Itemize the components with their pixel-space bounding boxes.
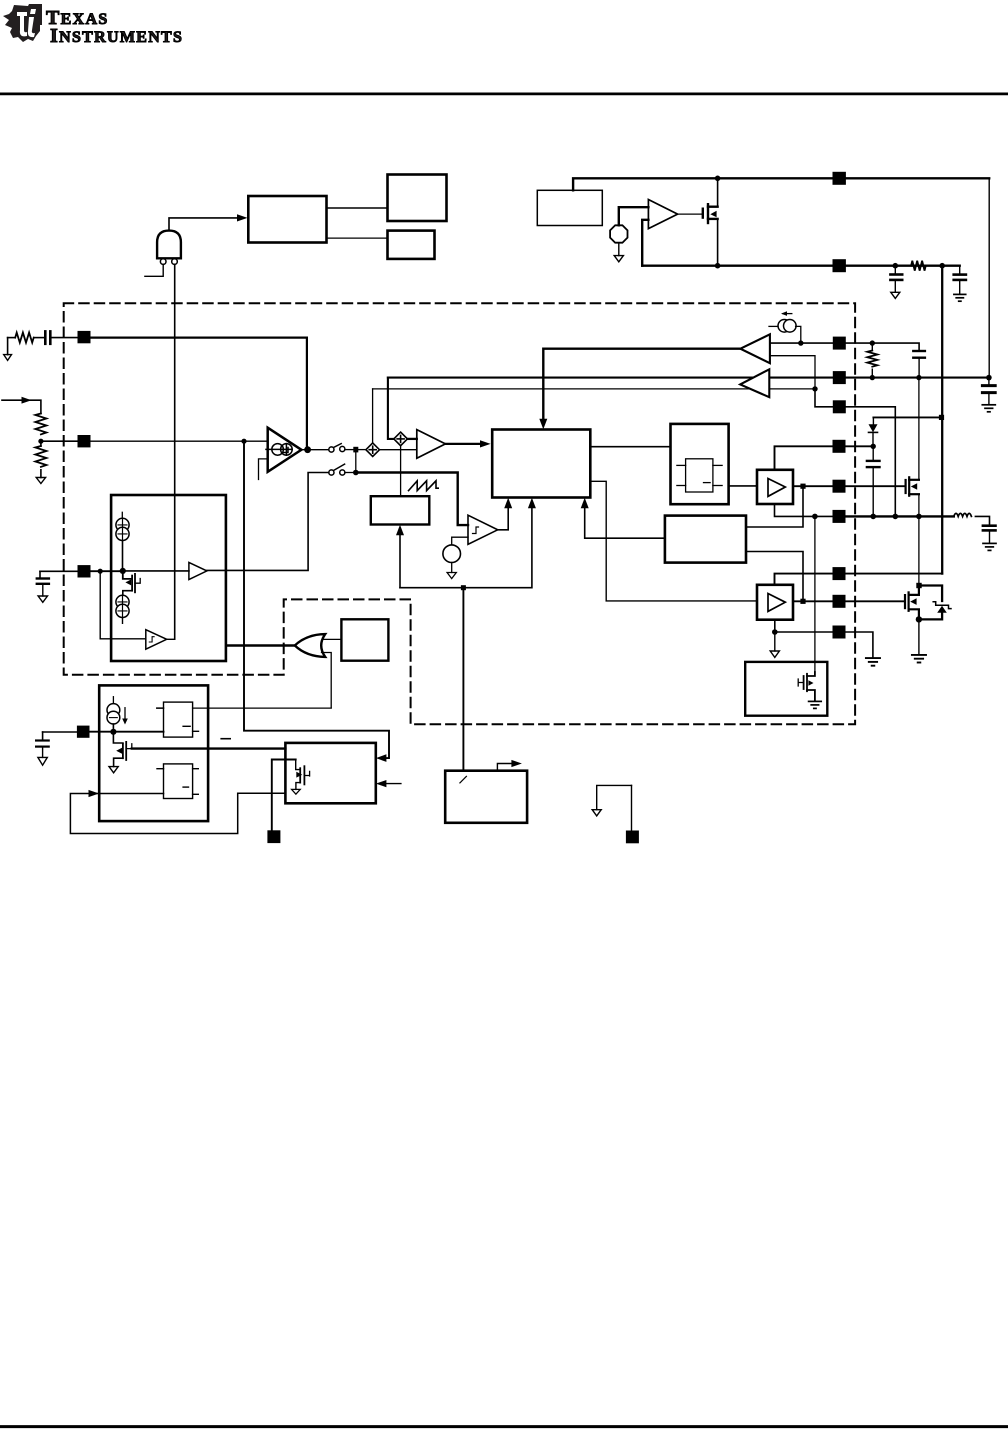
block driver 2 (low side) (757, 585, 793, 620)
wire C9 stem (989, 530, 991, 542)
junction S2 node (353, 470, 359, 476)
current source I4 (SS sink) (116, 595, 129, 617)
junction square S1/S2 node (353, 447, 358, 453)
junction Q1 drain (715, 176, 721, 182)
slash mark inside (460, 776, 467, 783)
pin bottom SYNC (267, 830, 280, 843)
wire C4 stems (894, 266, 896, 293)
wire AND output to reference block (169, 214, 248, 230)
wire AND left input stub (145, 264, 163, 276)
wire SUM2 to ramp generator (400, 446, 402, 497)
wire restart feedback loop (70, 790, 285, 834)
block Reference (box A) (248, 196, 326, 243)
block SW pulldown (745, 662, 827, 716)
current source I1 (octagon) (610, 225, 627, 242)
sawtooth waveform symbol (409, 481, 439, 491)
capacitor C5 (BP out) (954, 275, 966, 280)
pin FB (left, y=441.2) (78, 435, 91, 447)
wire C6 stem (918, 358, 920, 378)
wire U8 output to AND gate (167, 638, 175, 640)
wire driver block arrow input 2 (376, 780, 401, 787)
junction square driver1 out (800, 484, 805, 489)
pin bottom AGND (626, 831, 639, 844)
wire GD2 to Q7 gate (846, 600, 905, 602)
wire net SWSNS (y=388.9 bus) (373, 388, 815, 390)
ground earth (C5) (954, 294, 966, 301)
stray minus mark (221, 738, 230, 740)
wire U5 reference stub (259, 459, 268, 480)
wire PWM logic to driver 2 path (590, 481, 757, 601)
junction driver2 return (772, 629, 778, 635)
resistor R4 (BP rail) (911, 261, 926, 271)
wire SS pin external (40, 571, 78, 578)
wire FB branch to restart block (244, 441, 389, 762)
wire Q6 source to SW (918, 494, 920, 516)
resistor R2 (divider top) (35, 414, 46, 435)
pin SS (left, y=571.3) (78, 565, 91, 577)
transistor Q1 (BP pass FET) (703, 204, 718, 223)
wire FB input arrow (2, 397, 41, 414)
junction square ramp/frequency node (461, 585, 466, 590)
wire S2 node to oscillator comparator (356, 473, 468, 526)
capacitor C4 (BP bypass) (890, 275, 902, 280)
wire driver2 return (775, 620, 833, 632)
arrow I2 direction (781, 311, 792, 316)
wire C7 stems (988, 378, 990, 404)
pin BP2 (right, y=573.6) (833, 567, 846, 580)
wire I1 top to op-amp input (619, 207, 649, 225)
block UVLO (right of OR) (341, 619, 388, 660)
wire U7 output to PWM logic (498, 498, 513, 530)
wire COMP node to switch S1 (301, 449, 328, 451)
transistor Q7 (low-side FET) (905, 588, 919, 619)
wire ISNS to summer 2 (388, 378, 394, 439)
junction SW Q6 source (916, 514, 922, 520)
wire ramp line to PWM logic (400, 498, 536, 588)
ground arrow (DIS cap) (38, 757, 47, 765)
comparator box CMP1 (157, 702, 199, 737)
wire net U3 input (y=343.1) (770, 343, 919, 350)
resistor R3 (divider bottom) (35, 446, 46, 467)
wire SW down to Q7 drain (918, 516, 920, 582)
wire S2 to junction (345, 472, 353, 474)
wire Q7 source to ground (918, 619, 920, 654)
transistor Q8 arrow (808, 680, 813, 686)
op-amp U2 (BP regulator) (648, 200, 677, 229)
AND gate U1 (157, 231, 181, 259)
ground arrow (SS cap) (38, 596, 47, 602)
wire I3 to SS node (122, 541, 124, 571)
block box C (388, 231, 435, 259)
junction BOOT cap top (871, 444, 876, 449)
ground arrow (Q3) (109, 767, 118, 773)
wire SS node inside (123, 570, 189, 572)
junction Q1 source (715, 263, 721, 269)
capacitor C6 (filter) (913, 351, 925, 358)
wire BP rail (y=265.7) (642, 265, 960, 267)
wire I2 left lead (769, 325, 778, 327)
wire Q6 drain to ISNS (918, 378, 920, 480)
wire DIS cap to ground (42, 747, 44, 758)
current source I2 (OC threshold) (778, 320, 796, 333)
buffer triangle SS (189, 562, 207, 579)
block frequency set (445, 771, 527, 823)
switch S2 contacts (329, 464, 345, 475)
wire OR input 2 (322, 653, 332, 708)
gm symbol inside U5 (266, 444, 292, 456)
TI wordmark text (46, 7, 183, 47)
wire L1 to output cap (975, 516, 989, 525)
capacitor C9 (output) (983, 526, 996, 531)
transistor Q6 arrow (911, 483, 917, 490)
wire box A to box B (327, 207, 388, 209)
junction BP to column (939, 263, 945, 269)
wire GD1 to Q6 gate (846, 485, 905, 487)
junction C6 bottom (916, 375, 921, 380)
wire OR input 1 (324, 638, 342, 640)
diode D1 (bootstrap) (869, 417, 878, 446)
wire Q1 source to BP rail (717, 219, 719, 266)
wire VDD rail (y=178.3) (573, 178, 989, 190)
junction SWSNS node (812, 386, 817, 391)
ground arrow (I1) (614, 256, 623, 262)
transistor Q2 (SS discharge) (123, 571, 140, 595)
wire SW rail (846, 515, 954, 517)
capacitor C7 (ISNS) (982, 386, 995, 393)
pin BOOT (right, y=446.3) (833, 440, 846, 453)
wire BOOT net (775, 446, 874, 470)
junction I2 tap (798, 340, 803, 345)
wire R5 stems (871, 343, 873, 378)
wire driver2 sense to anti-cross (746, 552, 803, 600)
current source I5 (107, 697, 120, 724)
wire driver1 sense to anti-cross (746, 489, 803, 528)
wire C5 stems (959, 266, 961, 294)
ground arrow (driver2) (770, 651, 779, 657)
wire OR output to soft-start block (227, 644, 295, 646)
pin DIS (left, y=731.7) (77, 726, 90, 738)
wire node down to frequency block (462, 590, 464, 771)
hysteresis mark U7 (473, 527, 479, 534)
AND gate input bubbles (160, 259, 177, 265)
ground earth (Q8) (809, 701, 822, 708)
junction COMP node (304, 446, 311, 453)
oscillator source CLK circle (443, 545, 461, 563)
inductor L1 (954, 513, 972, 516)
junction R5 bottom (870, 375, 875, 380)
wire Q3 gate drive (to driver block) (132, 747, 286, 749)
wire fault line (y=708) (157, 707, 331, 709)
junction SW sense tap (893, 514, 899, 520)
transistor Q7 arrow (910, 598, 916, 605)
error amplifier U5 (268, 428, 302, 472)
wire ramp feedback up arrow (396, 525, 404, 588)
wire I4 tail (122, 618, 124, 624)
wire PWM logic to output logic (590, 446, 670, 448)
block driver 1 (high side) (757, 470, 793, 504)
ground arrow (divider) (36, 478, 45, 484)
TI logo mark (3, 4, 42, 42)
block restart driver (285, 743, 375, 803)
wire DIS into block (90, 731, 164, 733)
current source I3 (SS charge) (116, 512, 129, 540)
wire C8 stems (872, 446, 874, 516)
pin GD1 (right, y=486.2) (833, 480, 846, 493)
wire PGND to earth (846, 632, 873, 657)
wire SWSNS to pin (815, 389, 895, 517)
pin COMP (left, y=337.6) (78, 331, 91, 343)
ground earth (Q7) (912, 655, 926, 663)
junction SW branch (812, 514, 818, 520)
junction square driver2 out (800, 599, 805, 604)
wire I1 bottom to ground (618, 243, 620, 256)
junction FB branch (241, 439, 246, 444)
summer node SUM1 (diamond +) (366, 443, 380, 457)
wire BP rail to driver 2 (775, 574, 943, 585)
pin GD2 (right, y=601.3) (833, 595, 846, 608)
capacitor C2 (SS external) (37, 579, 49, 584)
clock output arrow symbol (497, 760, 522, 771)
block output logic (671, 424, 729, 504)
comparator box CMP2 (157, 764, 198, 799)
transistor Q1 arrow (710, 211, 716, 217)
comparator U4 (points left) (740, 369, 769, 397)
summer node SUM2 (diamond +) (394, 432, 408, 446)
footer rule (0, 1425, 1008, 1428)
wire U2 feedback from BP rail (642, 220, 648, 266)
transistor Q3 (DIS pulldown) (113, 724, 131, 767)
wire FB to error amp input (91, 440, 268, 442)
ground arrow (AGND) (592, 810, 601, 816)
wire SS comparator input (100, 571, 146, 639)
header rule (0, 93, 1008, 96)
ground arrow (CLK) (447, 573, 456, 579)
wire BP to boot diode (873, 416, 941, 418)
transistor Q2 arrow (125, 579, 131, 585)
junction square BP tap (939, 415, 944, 420)
wire CLK to U7 input (452, 537, 468, 545)
transistor Q6 (high-side FET) (906, 477, 919, 495)
comparator U3 (OC, points left) (740, 334, 770, 363)
svg-text:INSTRUMENTS: INSTRUMENTS (50, 25, 183, 47)
OR gate U9 (restart) (295, 634, 325, 657)
hysteresis mark U8 (149, 637, 154, 642)
pin VDD (right, y=178.3) (833, 172, 846, 185)
wire S1 to junction (345, 449, 353, 451)
wire COMP pin to EA output node (91, 338, 307, 449)
wire SS to S2 (207, 473, 329, 571)
block box D (bias) (537, 190, 602, 225)
wire Q1 drain to VDD (717, 178, 719, 206)
wire junction down to S2 (355, 452, 357, 472)
flip-flop inner box (677, 459, 722, 492)
junction SS comparator tap (98, 569, 103, 574)
comparator U8 (SS enable) (146, 630, 167, 650)
wire SS cap to ground (42, 584, 44, 596)
ground earth (C9) (983, 543, 996, 550)
junction BP cap tap (893, 263, 899, 269)
wire driver1 return to SW (775, 504, 833, 516)
ground arrow (C4) (891, 292, 900, 298)
IC boundary dashed outline (64, 303, 855, 724)
ground arrow (Q4) (292, 789, 301, 794)
wire CLK to ground (451, 563, 453, 573)
switch S1 contacts (329, 444, 345, 453)
block box B (388, 175, 447, 222)
junction SW boot cap (870, 514, 876, 520)
capacitor C1 (COMP external) (45, 331, 50, 343)
capacitor C3 (DIS external) (36, 741, 49, 747)
wire output logic to driver 1 (729, 485, 757, 487)
junction square Q7 drain (916, 583, 921, 588)
resistor R1 (COMP external) (15, 333, 34, 343)
junction ISNS right end (986, 375, 992, 381)
ground earth (PGND) (866, 658, 880, 666)
wire driver2 output (793, 600, 833, 602)
wire I2 to U3 input net (796, 326, 801, 343)
comparator U6 (PWM) (417, 430, 446, 459)
block PWM logic (492, 430, 590, 498)
buffer triangle driver 2 (768, 594, 785, 612)
wire AND right input from SS comparator (174, 264, 176, 639)
pin ISNS2 (right, y=377.6) (833, 371, 846, 384)
junction R5 top (870, 340, 875, 345)
ground earth (C7) (982, 405, 995, 412)
wire DIS pin external (43, 732, 77, 740)
block PWM ramp generator (371, 496, 430, 524)
buffer triangle driver 1 (768, 479, 785, 497)
wire COMP external segments (8, 338, 78, 355)
junction FB node (38, 439, 43, 444)
transistor Q8 (SW pulldown) (798, 672, 815, 701)
transistor Q4 arrow (296, 772, 302, 778)
wire SUM2 to PWM comparator (407, 438, 416, 440)
pin BP (right, y=265.7) (833, 259, 846, 272)
wire driver2 local ground (774, 632, 776, 651)
junction Q7 source (916, 616, 922, 622)
ground arrow (COMP RC) (4, 355, 12, 361)
transistor Q3 arrow (116, 748, 122, 754)
wire VDD right drop (988, 178, 990, 377)
block soft-start (111, 495, 226, 661)
wire box A to box C (327, 237, 388, 239)
wire U6 output to PWM logic (445, 440, 490, 447)
comparator U7 (oscillator) (468, 515, 498, 544)
diode D2 (Schottky) (919, 586, 942, 620)
pin SWSNS (right, y=406.8) (833, 400, 846, 413)
wire AGND pin link (597, 785, 632, 830)
wire SS net (91, 570, 123, 572)
capacitor C8 (bootstrap) (867, 461, 880, 467)
wire junction to summer 1 (358, 449, 366, 451)
junction DIS node (110, 729, 116, 735)
pin ISNS1 (right, y=343.1) (833, 337, 846, 350)
junction SS internal (120, 568, 126, 574)
pin PGND (right, y=632) (833, 626, 846, 639)
pin SW (right, y=516.4) (833, 510, 846, 523)
wire U3 output to PWM logic (539, 349, 740, 430)
wire SW sense to pulldown FET (814, 516, 816, 672)
wire U3 lower input to pin SW sense (770, 356, 815, 389)
wire SUM1 to PWM comparator (380, 449, 417, 451)
wire driver1 output (793, 485, 833, 487)
block anti-cross-conduction (665, 516, 746, 563)
block restart comparators (99, 685, 208, 821)
wire SWSNS to summer 1 (372, 389, 374, 443)
resistor R5 (filter) (867, 351, 877, 367)
wire U2 output to Q1 gate (678, 213, 702, 215)
wire BP column (x=942) (941, 266, 943, 574)
wire FB node (41, 440, 78, 477)
arrow I5 direction (122, 708, 128, 725)
wire net ISNS (y=377.6 bus) (388, 377, 989, 379)
wire anti-cross block to PWM logic (581, 498, 665, 539)
transistor Q4 (in driver block) (272, 760, 310, 831)
